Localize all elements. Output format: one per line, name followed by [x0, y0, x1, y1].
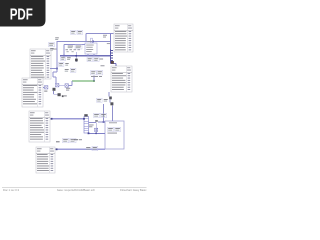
bus vertical ladder	[110, 49, 112, 64]
svg-text:Doc 1 rev 0.3: Doc 1 rev 0.3	[3, 188, 19, 192]
wire v x93 into U1	[92, 41, 94, 43]
label F2 ref/val	[115, 127, 121, 131]
label C3 text b	[99, 75, 102, 78]
label L3 value	[70, 138, 76, 142]
text under R2	[53, 48, 57, 51]
pin number texts above bus	[66, 48, 69, 51]
label stairs b2	[70, 68, 76, 72]
net name mid L3	[56, 141, 60, 142]
wire v below J5	[108, 92, 110, 97]
wire green left drop	[71, 81, 73, 86]
crystal X3 near J2	[45, 86, 48, 89]
wire J2 stub	[43, 86, 45, 88]
svg-text:Flowchart: Easy Basic: Flowchart: Easy Basic	[120, 188, 147, 192]
sheet box F	[105, 121, 124, 149]
label stairs ref	[59, 62, 64, 66]
title block top line	[2, 186, 147, 188]
svg-text:PDF: PDF	[10, 6, 33, 23]
label U1 extra	[100, 59, 104, 60]
wire v q1-q2	[53, 91, 55, 94]
label R1	[71, 30, 77, 34]
label C2 value	[67, 57, 71, 60]
label D4 top b	[103, 36, 106, 39]
svg-text:base: /exports/KiCAD/Basic.sch: base: /exports/KiCAD/Basic.sch	[57, 188, 95, 192]
net L2 y133.3	[89, 132, 106, 134]
transistor Q3	[110, 102, 113, 105]
label R2 value	[50, 48, 53, 51]
transistor Q1	[53, 88, 56, 91]
text near stairs b	[66, 89, 69, 92]
bus pin dashes	[111, 50, 114, 52]
wire v x112.5 upper	[112, 105, 114, 108]
resistor R7 on bus	[75, 52, 78, 62]
text near stairs a	[66, 87, 70, 90]
PDF badge	[0, 0, 46, 27]
junction x103.5	[103, 121, 105, 123]
wire v resistor R5	[95, 123, 97, 134]
green net wire	[72, 80, 94, 82]
wire h q1-q2	[54, 93, 58, 95]
wire h y122 into F	[98, 121, 105, 123]
net name above L3 b	[79, 139, 82, 140]
label C1 value	[75, 45, 82, 49]
label C3 value	[97, 71, 103, 75]
label R4 ref	[94, 113, 100, 117]
wire rail y33.5	[86, 33, 114, 35]
diode D2	[95, 128, 98, 131]
label C3 text a	[91, 75, 98, 78]
bus vertical upper	[110, 34, 112, 50]
junction L2 b	[95, 133, 97, 135]
component small	[62, 95, 64, 97]
wire v x94 above green	[93, 76, 95, 81]
label R1 value	[77, 30, 83, 34]
wire v x112.5 into F	[112, 108, 114, 121]
label R2	[49, 43, 55, 47]
connector table J4 (top right)	[114, 24, 133, 52]
label F3 text	[108, 132, 118, 135]
junction bus R7	[75, 55, 77, 57]
net L3 start nub	[56, 148, 58, 150]
diode D1	[109, 97, 112, 100]
label R5 text	[89, 124, 94, 127]
wire U1 stub a	[87, 54, 89, 56]
label F1 ref/val	[108, 127, 114, 131]
label L3 ref	[63, 138, 69, 142]
wire step1 v	[55, 77, 57, 84]
label J5 text	[101, 64, 105, 67]
wire U1 stub b	[93, 54, 95, 56]
label C2	[61, 57, 66, 61]
label U1 top text	[88, 40, 92, 43]
resistor R8 above U1	[91, 38, 93, 43]
connector J7 top cap	[84, 114, 87, 116]
net L3 y149.3	[56, 148, 106, 150]
bus corner to J5	[111, 63, 117, 65]
wire h y68.5 left	[50, 68, 51, 70]
wire rail y41	[57, 40, 111, 42]
junction tableA	[56, 68, 58, 70]
text near Q2	[64, 95, 67, 96]
wire h y122.5 from J7	[89, 122, 97, 124]
label D4 top a	[103, 34, 107, 37]
junction L2 a	[88, 132, 90, 134]
connector table J5 (right mid)	[111, 66, 132, 92]
crystal X1	[56, 84, 59, 87]
label R9	[55, 37, 59, 40]
label R4 value	[101, 113, 107, 117]
label U1 ref	[87, 58, 93, 62]
wire v d1-q3	[109, 99, 111, 102]
vertical connector J7 ladder	[84, 117, 89, 134]
wire tableA stub	[51, 68, 57, 70]
label C1	[68, 46, 73, 49]
wire h y85.4 a	[69, 84, 73, 86]
label C3	[91, 71, 97, 75]
wire vertical x57	[56, 41, 58, 72]
junction y41	[92, 41, 94, 43]
net L1 start nub	[51, 118, 53, 120]
label D1 ref	[97, 98, 103, 102]
connector table J3 (lower left)	[29, 111, 50, 142]
junction L1 end	[83, 118, 85, 120]
wire step1 h	[53, 76, 56, 78]
wire rail y44.5	[64, 44, 85, 46]
connector table J1 (upper left)	[30, 49, 51, 79]
label L3b ref	[86, 147, 90, 149]
net name above L3 a	[74, 139, 78, 140]
label U1 value	[94, 58, 100, 62]
transistor Q2	[58, 93, 61, 96]
net L1 y118.8	[51, 118, 85, 120]
wire step0 v	[52, 72, 54, 77]
net label dark	[95, 120, 98, 121]
green junction	[93, 80, 95, 82]
text below X3	[44, 91, 47, 92]
connector table J6 (bottom left)	[36, 147, 55, 173]
diode on bus corner	[111, 61, 114, 64]
label bus text	[107, 42, 110, 45]
crystal X2	[65, 84, 68, 87]
bus drop to J5	[115, 64, 117, 67]
wire step0 h	[53, 71, 57, 73]
connector table J2 (mid left)	[22, 78, 43, 107]
wire v x86 link	[85, 34, 87, 42]
label D1 value	[104, 99, 108, 102]
wire h y85.4 b	[59, 84, 65, 86]
label stairs b1	[65, 69, 69, 72]
IC U1 box	[85, 43, 97, 54]
wire v x103.5	[103, 104, 105, 122]
label L3b value	[92, 146, 98, 150]
bus horizontal	[60, 55, 111, 57]
label R5 text2	[89, 125, 92, 128]
wire v x64	[63, 45, 65, 56]
junction bus x64	[63, 55, 65, 57]
label stairs ref2	[65, 63, 68, 66]
